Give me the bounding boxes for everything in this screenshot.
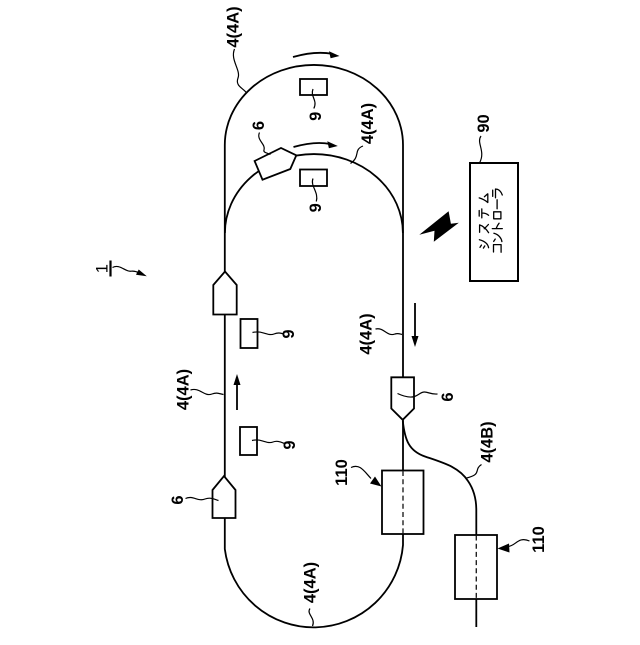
svg-text:4(4A): 4(4A) <box>175 369 193 410</box>
lightning bolt wireless link <box>419 211 459 242</box>
sensor 9 rect top inner <box>300 170 327 187</box>
svg-text:6: 6 <box>250 121 268 130</box>
leader 4(4A) inner arc <box>351 146 364 164</box>
leader 6 lower-left pentagon <box>186 497 219 500</box>
svg-text:6: 6 <box>439 392 457 401</box>
leader 4(4A) top-left <box>233 49 246 93</box>
leader 9 top outer <box>312 89 315 109</box>
arrow direction top inner <box>294 143 331 147</box>
leader 110 left box with arrowhead <box>351 466 371 478</box>
svg-text:4(4B): 4(4B) <box>479 421 497 462</box>
svg-text:110: 110 <box>530 526 548 553</box>
sensor 9 rect top outer <box>300 79 327 95</box>
leader 6 right pentagon <box>398 392 438 397</box>
sensor 9 rect left upper <box>241 319 258 348</box>
vehicle 6 pentagon up on left line (lower) <box>213 476 236 518</box>
svg-text:9: 9 <box>307 203 325 212</box>
figure number underline <box>109 261 111 277</box>
wire outer loop track 4(4A) <box>225 65 403 627</box>
arrow direction right line down <box>414 303 416 339</box>
leader 6 tilted pentagon <box>259 133 271 155</box>
leader 4(4A) right line <box>376 329 403 335</box>
leader 4(4B) <box>466 465 482 479</box>
sensor 9 rect left lower <box>240 427 257 455</box>
svg-text:6: 6 <box>169 495 187 504</box>
wire inner arc track 4(4A) <box>225 154 403 233</box>
processing device 110 box on right line <box>382 471 424 535</box>
svg-text:1: 1 <box>94 264 112 273</box>
arrow direction top outer <box>293 53 332 57</box>
arrow direction left line up <box>236 382 238 410</box>
svg-text:110: 110 <box>333 459 351 486</box>
svg-text:9: 9 <box>281 440 299 449</box>
leader 110 right box with arrowhead <box>508 540 530 547</box>
wire branch track 4(4B) <box>403 421 477 627</box>
vehicle 6 pentagon down on right line <box>391 377 414 420</box>
system controller box 90 <box>470 163 518 281</box>
svg-text:4(4A): 4(4A) <box>358 313 376 354</box>
vehicle 6 tilted pentagon on inner arc <box>255 148 297 180</box>
processing device 110 box on branch line <box>455 535 497 599</box>
figure leader arrow <box>113 266 140 272</box>
leader 9 top inner <box>312 179 316 202</box>
leader 4(4A) left line <box>191 389 224 394</box>
svg-text:4(4A): 4(4A) <box>359 103 377 144</box>
svg-text:4(4A): 4(4A) <box>225 6 243 47</box>
leader 90 <box>480 136 482 163</box>
svg-text:90: 90 <box>475 114 493 132</box>
vehicle 6 pentagon up on left line (upper) <box>213 272 236 315</box>
leader 9 left lower <box>252 440 285 444</box>
svg-text:4(4A): 4(4A) <box>302 562 320 603</box>
svg-text:9: 9 <box>307 112 325 121</box>
leader 9 left upper <box>253 332 284 335</box>
leader 4(4A) bottom arc <box>309 609 313 627</box>
